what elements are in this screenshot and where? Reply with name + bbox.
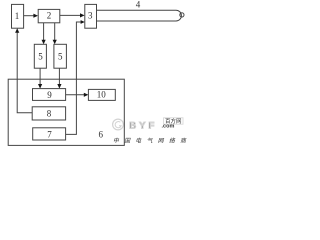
box 10 xyxy=(88,89,115,100)
box 7 xyxy=(33,128,66,140)
svg-text:百方网: 百方网 xyxy=(165,117,182,125)
watermark badge xyxy=(164,118,184,124)
svg-text:10: 10 xyxy=(97,90,107,100)
box 3 xyxy=(85,4,97,28)
box 1 xyxy=(12,4,24,28)
watermark logo circle xyxy=(113,119,124,130)
svg-text:7: 7 xyxy=(47,129,52,139)
box 2 xyxy=(38,9,60,22)
tip circle xyxy=(180,13,184,17)
wire 2 to left 5 xyxy=(43,23,45,42)
svg-text:6: 6 xyxy=(98,130,103,140)
box 9 xyxy=(33,89,66,101)
svg-text:1: 1 xyxy=(15,11,20,21)
wire left 5 to 9 xyxy=(39,68,41,85)
svg-text:3: 3 xyxy=(88,11,93,21)
wire right 5 to 9 xyxy=(58,68,60,85)
svg-text:5: 5 xyxy=(58,51,63,61)
box 5 right xyxy=(54,44,67,68)
wire 1 to 2 xyxy=(24,15,35,17)
enclosure 6 xyxy=(8,79,124,145)
wire 9 to 10 xyxy=(66,94,86,96)
svg-text:4: 4 xyxy=(136,0,141,9)
box 8 xyxy=(32,107,65,120)
wire 8 to 1 feedback xyxy=(17,31,32,113)
wire 7 to 3 xyxy=(66,22,82,134)
box 5 left xyxy=(34,44,46,68)
svg-text:5: 5 xyxy=(38,52,43,62)
svg-text:8: 8 xyxy=(47,108,52,118)
svg-text:BYF: BYF xyxy=(129,120,157,131)
probe tube 4 xyxy=(97,10,182,21)
svg-text:9: 9 xyxy=(47,90,52,100)
wire 2 to right 5 xyxy=(54,23,56,42)
svg-text:2: 2 xyxy=(47,10,52,20)
wire 2 to 3 xyxy=(60,14,82,16)
